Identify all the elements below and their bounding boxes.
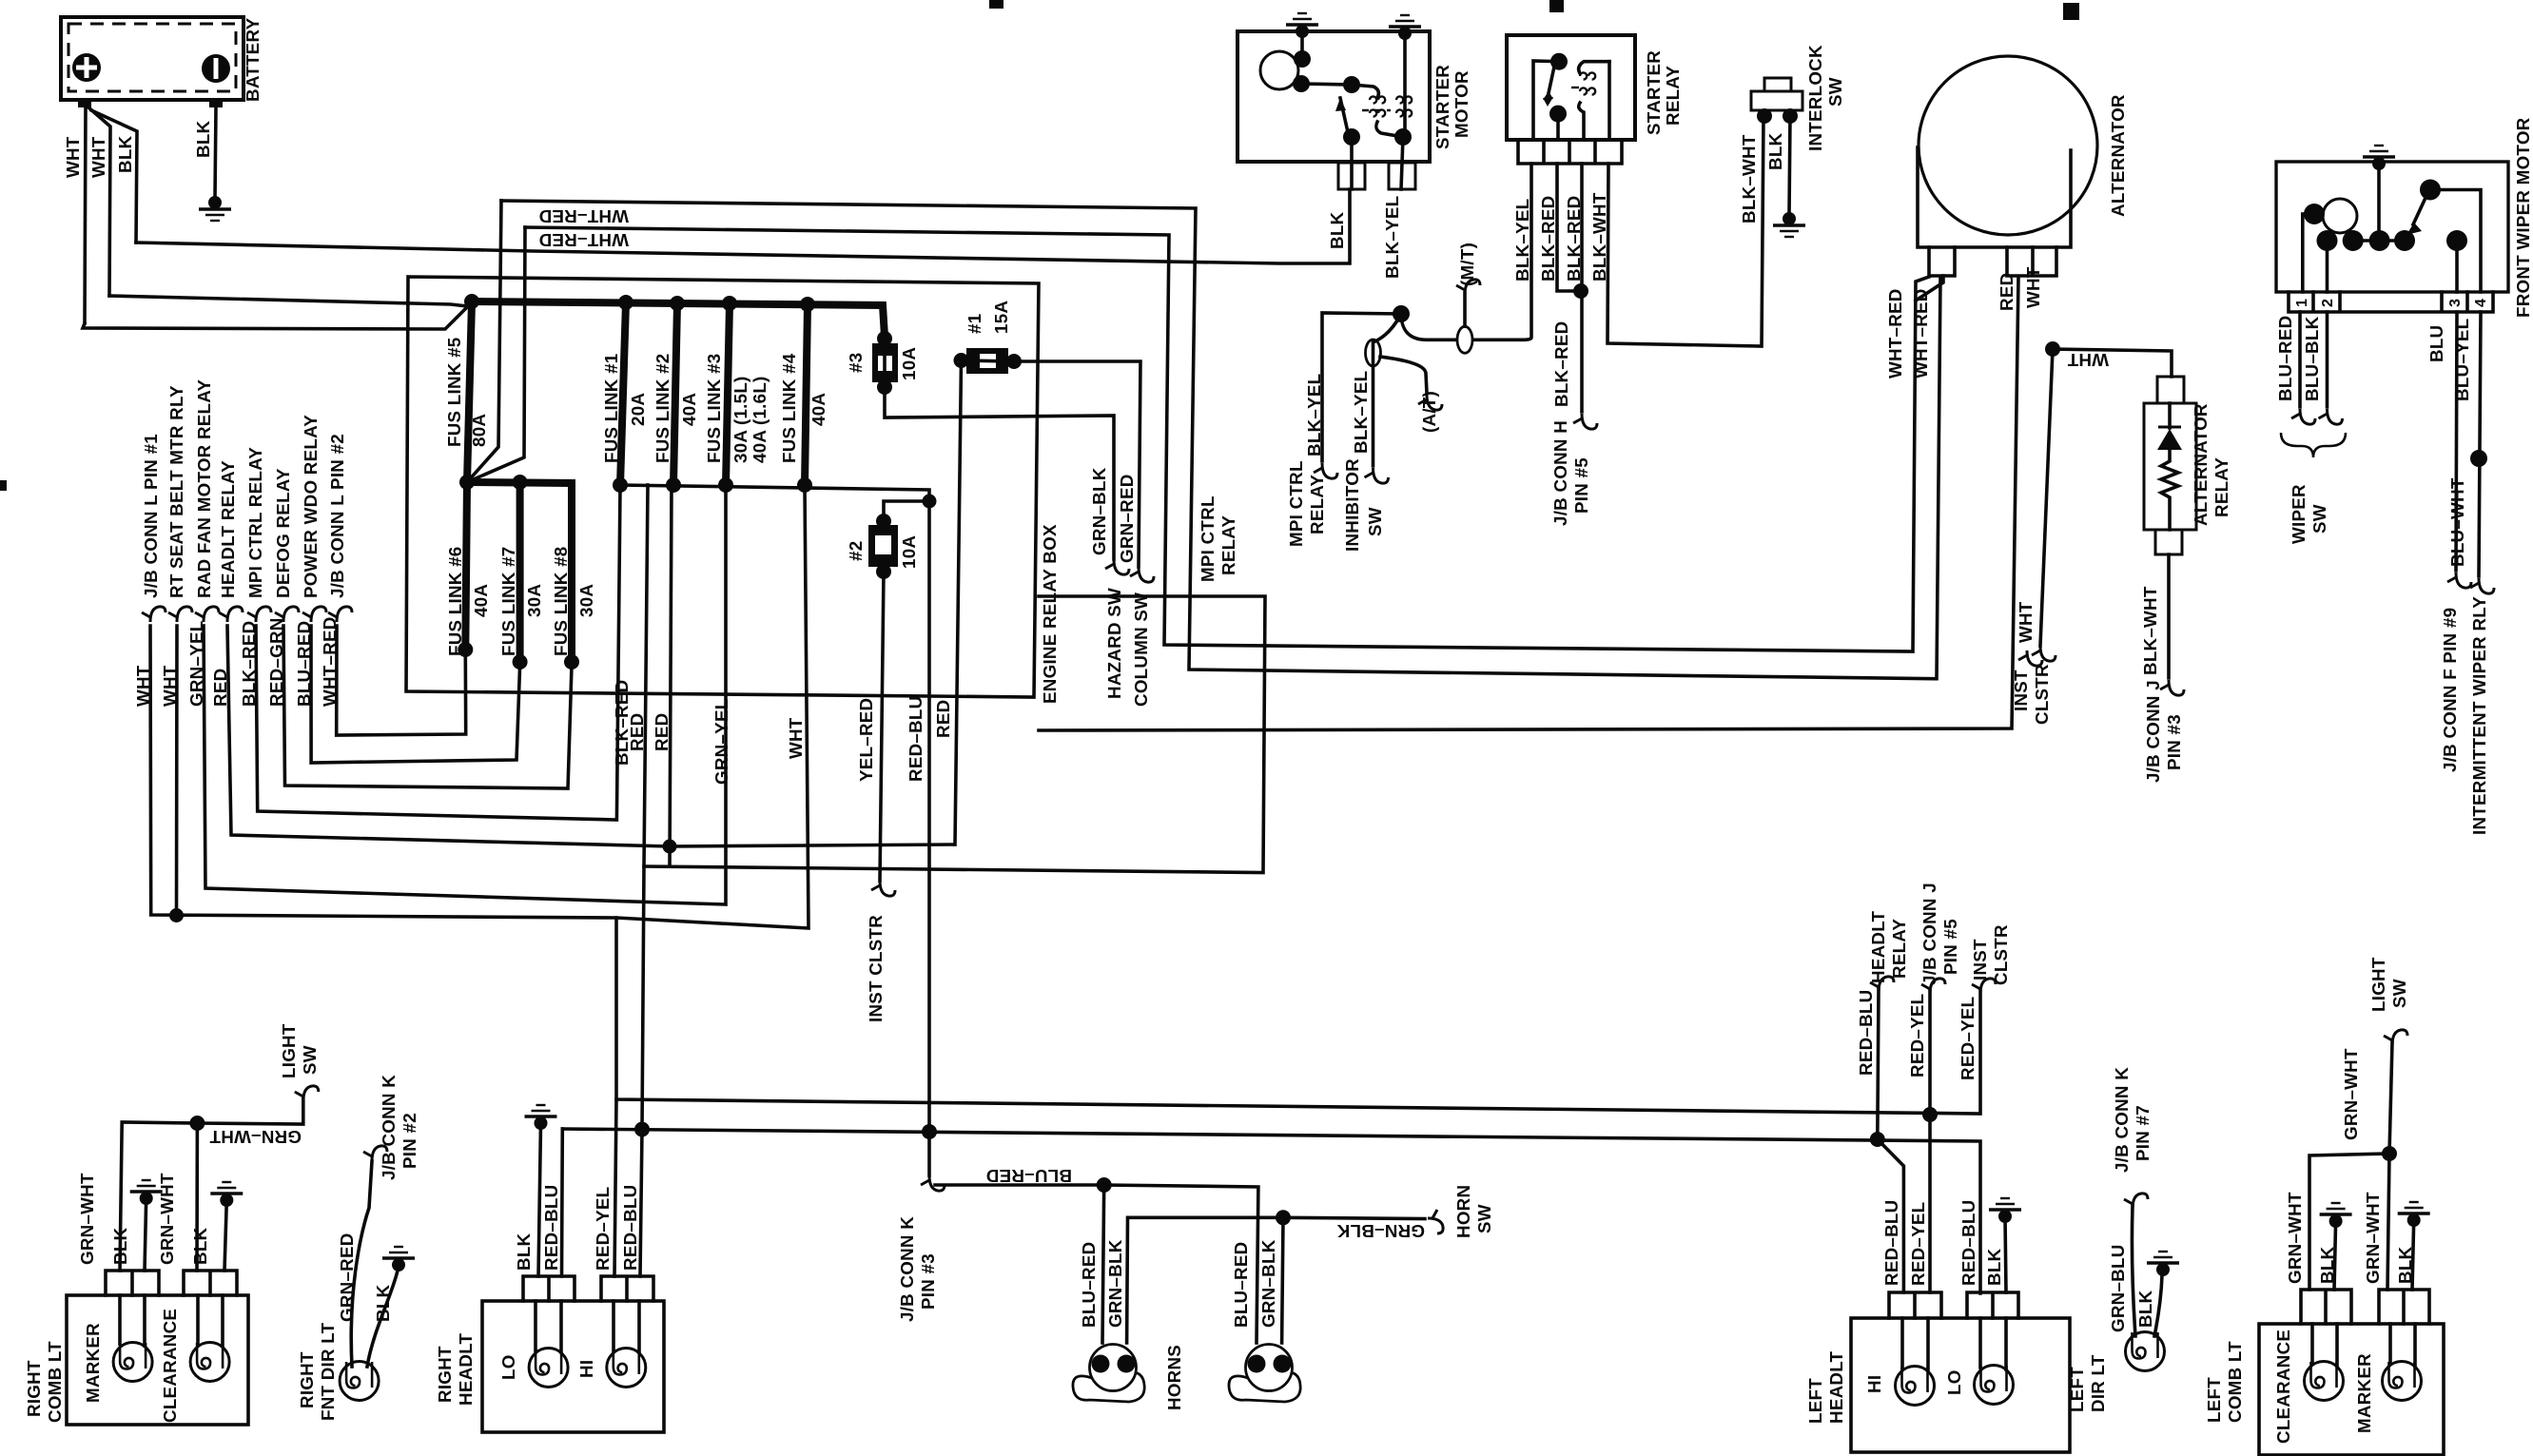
svg-text:40A: 40A: [809, 393, 828, 426]
svg-text:GRN–BLK: GRN–BLK: [1336, 1221, 1425, 1241]
svg-text:J/B CONN J: J/B CONN J: [2143, 680, 2163, 783]
svg-text:BLK: BLK: [373, 1284, 393, 1322]
svg-text:BLK: BLK: [1765, 132, 1785, 170]
svg-text:LO: LO: [1944, 1369, 1964, 1395]
svg-text:#3: #3: [846, 353, 866, 373]
svg-text:DEFOG RELAY: DEFOG RELAY: [273, 468, 293, 598]
svg-text:ALTERNATOR: ALTERNATOR: [2108, 94, 2128, 217]
svg-text:30A: 30A: [524, 584, 544, 617]
svg-text:WHT–RED: WHT–RED: [1885, 288, 1905, 379]
svg-text:J/B CONN K: J/B CONN K: [2112, 1067, 2132, 1173]
svg-text:RED–BLU: RED–BLU: [1881, 1200, 1901, 1286]
svg-text:FUS LINK #5: FUS LINK #5: [444, 338, 464, 447]
svg-text:GRN–WHT: GRN–WHT: [2341, 1048, 2361, 1140]
svg-text:J/B CONN F PIN #9: J/B CONN F PIN #9: [2440, 608, 2460, 772]
svg-text:BLK: BLK: [2395, 1246, 2415, 1284]
svg-text:RELAY: RELAY: [2212, 457, 2231, 517]
svg-text:FRONT WIPER MOTOR: FRONT WIPER MOTOR: [2513, 117, 2533, 318]
svg-text:HAZARD SW: HAZARD SW: [1104, 588, 1124, 699]
svg-text:FUS LINK #2: FUS LINK #2: [653, 354, 672, 463]
svg-text:INST CLSTR: INST CLSTR: [866, 915, 886, 1022]
svg-text:HI: HI: [576, 1360, 596, 1378]
svg-text:BLK–RED: BLK–RED: [1551, 321, 1571, 407]
svg-text:WHT: WHT: [786, 717, 806, 759]
svg-text:RED: RED: [933, 700, 953, 738]
svg-text:SW: SW: [2309, 504, 2329, 534]
svg-text:RELAY: RELAY: [1889, 919, 1909, 979]
svg-text:BLU–YEL: BLU–YEL: [2452, 319, 2472, 401]
svg-text:LIGHT: LIGHT: [2368, 957, 2388, 1012]
svg-text:PIN #7: PIN #7: [2133, 1105, 2153, 1161]
svg-text:LIGHT: LIGHT: [279, 1023, 299, 1078]
svg-text:#1: #1: [964, 314, 984, 334]
svg-text:ENGINE RELAY BOX: ENGINE RELAY BOX: [1040, 524, 1060, 704]
svg-text:BLU: BLU: [2426, 325, 2446, 362]
svg-text:20A: 20A: [628, 393, 648, 426]
svg-text:FUS LINK #4: FUS LINK #4: [779, 353, 799, 463]
svg-text:#2: #2: [846, 541, 866, 561]
svg-text:BLU–RED: BLU–RED: [1231, 1242, 1251, 1328]
svg-text:BLK: BLK: [1327, 211, 1347, 249]
svg-text:WIPER: WIPER: [2289, 484, 2309, 544]
svg-text:GRN–YEL: GRN–YEL: [711, 699, 731, 785]
svg-text:40A: 40A: [471, 584, 491, 617]
svg-text:FNT DIR LT: FNT DIR LT: [318, 1322, 338, 1421]
svg-text:15A: 15A: [991, 301, 1011, 334]
svg-text:SW: SW: [1365, 507, 1385, 536]
svg-text:COLUMN SW: COLUMN SW: [1131, 592, 1151, 707]
svg-text:INST: INST: [2011, 670, 2031, 711]
svg-text:GRN–BLK: GRN–BLK: [1089, 467, 1109, 555]
svg-text:RIGHT: RIGHT: [297, 1351, 317, 1408]
svg-text:MPI CTRL: MPI CTRL: [1198, 495, 1218, 582]
svg-text:BLU–RED: BLU–RED: [986, 1166, 1072, 1186]
svg-text:(M/T): (M/T): [1457, 243, 1477, 286]
svg-text:GRN–WHT: GRN–WHT: [77, 1173, 97, 1265]
svg-text:HORNS: HORNS: [1164, 1345, 1184, 1410]
svg-text:BLU–BLK: BLU–BLK: [2302, 316, 2322, 401]
svg-text:40A (1.6L): 40A (1.6L): [750, 376, 770, 463]
svg-text:DIR LT: DIR LT: [2088, 1354, 2108, 1412]
svg-text:SW: SW: [1825, 77, 1845, 107]
svg-text:COMB LT: COMB LT: [45, 1341, 65, 1423]
svg-text:ALTERNATOR: ALTERNATOR: [2191, 403, 2211, 526]
svg-text:CLSTR: CLSTR: [2032, 664, 2052, 725]
svg-text:LEFT: LEFT: [2204, 1377, 2224, 1423]
svg-text:RT SEAT BELT MTR RLY: RT SEAT BELT MTR RLY: [166, 385, 186, 598]
svg-text:GRN–RED: GRN–RED: [337, 1233, 357, 1322]
svg-text:BLK–RED: BLK–RED: [1538, 196, 1558, 281]
svg-text:FUS LINK #6: FUS LINK #6: [445, 547, 465, 656]
svg-text:INHIBITOR: INHIBITOR: [1342, 458, 1362, 552]
svg-text:30A (1.5L): 30A (1.5L): [731, 376, 750, 463]
svg-text:COMB LT: COMB LT: [2225, 1341, 2245, 1423]
svg-text:WHT: WHT: [2016, 601, 2036, 643]
svg-text:MARKER: MARKER: [2354, 1353, 2374, 1433]
svg-text:BLK: BLK: [514, 1233, 534, 1271]
svg-text:BLU–RED: BLU–RED: [2275, 316, 2295, 401]
svg-text:RIGHT: RIGHT: [24, 1360, 44, 1417]
svg-text:RED: RED: [1997, 273, 2017, 311]
svg-text:GRN–WHT: GRN–WHT: [2285, 1192, 2305, 1284]
svg-text:RED–YEL: RED–YEL: [1908, 1202, 1928, 1286]
svg-text:GRN–WHT: GRN–WHT: [157, 1173, 177, 1265]
svg-text:BLK: BLK: [190, 1227, 210, 1265]
svg-text:BLK–YEL: BLK–YEL: [1382, 196, 1402, 279]
svg-text:YEL–RED: YEL–RED: [856, 698, 876, 782]
svg-text:WHT: WHT: [2067, 350, 2109, 370]
svg-text:GRN–BLU: GRN–BLU: [2108, 1244, 2128, 1332]
svg-text:2: 2: [2320, 299, 2336, 307]
svg-text:HEADLT: HEADLT: [1868, 910, 1888, 983]
svg-text:J/B CONN J: J/B CONN J: [1919, 883, 1939, 985]
svg-text:LEFT: LEFT: [2067, 1367, 2087, 1412]
svg-text:SW: SW: [1474, 1204, 1494, 1233]
svg-text:BLK–WHT: BLK–WHT: [2140, 586, 2160, 675]
svg-text:GRN–RED: GRN–RED: [1117, 474, 1137, 563]
svg-text:RED–BLU: RED–BLU: [1856, 990, 1876, 1076]
svg-text:HEADLT: HEADLT: [1826, 1350, 1846, 1424]
svg-text:GRN–WHT: GRN–WHT: [209, 1127, 302, 1147]
svg-text:MARKER: MARKER: [83, 1323, 103, 1403]
svg-text:PIN #3: PIN #3: [2164, 714, 2184, 770]
svg-text:BLK: BLK: [2135, 1290, 2155, 1328]
svg-text:HI: HI: [1864, 1375, 1884, 1393]
svg-text:INTERMITTENT WIPER RLY: INTERMITTENT WIPER RLY: [2469, 596, 2489, 835]
svg-text:1: 1: [2294, 299, 2310, 307]
svg-text:4: 4: [2473, 299, 2489, 307]
svg-text:J/B CONN K: J/B CONN K: [897, 1216, 917, 1322]
svg-text:GRN–BLK: GRN–BLK: [1105, 1239, 1125, 1328]
svg-text:FUS LINK #1: FUS LINK #1: [601, 354, 621, 463]
svg-text:BLK–RED: BLK–RED: [1564, 196, 1584, 281]
svg-text:BLU–WHT: BLU–WHT: [2447, 477, 2467, 567]
svg-text:80A: 80A: [469, 414, 489, 447]
svg-text:BLK–WHT: BLK–WHT: [1739, 134, 1759, 223]
svg-text:STARTER: STARTER: [1432, 65, 1452, 149]
svg-text:BLK: BLK: [2317, 1246, 2337, 1284]
svg-text:CLSTR: CLSTR: [1991, 924, 2011, 985]
svg-text:PIN #2: PIN #2: [399, 1113, 419, 1169]
svg-text:10A: 10A: [899, 347, 919, 380]
svg-text:MOTOR: MOTOR: [1452, 70, 1471, 138]
svg-text:BLK–YEL: BLK–YEL: [1304, 374, 1324, 456]
svg-text:PIN #5: PIN #5: [1571, 457, 1591, 514]
svg-text:SW: SW: [300, 1045, 320, 1075]
svg-text:(A/T): (A/T): [1419, 391, 1439, 433]
svg-text:WHT–RED: WHT–RED: [538, 230, 629, 250]
svg-text:RED–BLU: RED–BLU: [541, 1185, 561, 1271]
svg-text:HEADLT RELAY: HEADLT RELAY: [218, 460, 238, 598]
svg-text:WHT: WHT: [63, 136, 83, 178]
svg-text:BLK: BLK: [193, 120, 213, 158]
svg-text:HEADLT: HEADLT: [456, 1332, 476, 1406]
svg-text:RELAY: RELAY: [1663, 66, 1683, 126]
svg-text:INTERLOCK: INTERLOCK: [1805, 45, 1825, 151]
svg-text:BLK–YEL: BLK–YEL: [1351, 371, 1371, 454]
svg-text:WHT–RED: WHT–RED: [1911, 288, 1931, 379]
svg-text:LEFT: LEFT: [1805, 1378, 1825, 1424]
svg-text:FUS LINK #7: FUS LINK #7: [498, 547, 518, 656]
svg-text:30A: 30A: [576, 584, 596, 617]
svg-text:POWER WDO RELAY: POWER WDO RELAY: [301, 415, 321, 598]
svg-text:J/B CONN K: J/B CONN K: [379, 1075, 399, 1180]
svg-text:RELAY: RELAY: [1218, 515, 1238, 575]
svg-text:RED–BLU: RED–BLU: [620, 1185, 640, 1271]
svg-text:WHT: WHT: [88, 136, 108, 178]
svg-text:J/B CONN L PIN #1: J/B CONN L PIN #1: [141, 434, 161, 598]
svg-text:GRN–WHT: GRN–WHT: [2363, 1192, 2383, 1284]
svg-text:CLEARANCE: CLEARANCE: [2273, 1330, 2293, 1444]
svg-text:J/B CONN L PIN #2: J/B CONN L PIN #2: [327, 434, 347, 598]
svg-text:40A: 40A: [679, 393, 699, 426]
svg-text:MPI CTRL: MPI CTRL: [1286, 460, 1306, 547]
svg-text:PIN #5: PIN #5: [1940, 919, 1960, 975]
svg-text:PIN #3: PIN #3: [918, 1253, 938, 1310]
svg-text:BLK–RED: BLK–RED: [612, 680, 632, 766]
svg-text:BLK–WHT: BLK–WHT: [1589, 192, 1609, 281]
svg-text:FUS LINK #3: FUS LINK #3: [704, 354, 724, 463]
svg-text:BLK–YEL: BLK–YEL: [1512, 199, 1532, 281]
svg-text:MPI CTRL RELAY: MPI CTRL RELAY: [245, 447, 265, 598]
svg-text:FUS LINK #8: FUS LINK #8: [551, 547, 571, 656]
svg-text:INST: INST: [1970, 939, 1990, 980]
svg-text:WHT: WHT: [2023, 266, 2043, 308]
svg-text:RED: RED: [652, 713, 672, 751]
svg-text:CLEARANCE: CLEARANCE: [160, 1309, 180, 1423]
svg-text:BLK: BLK: [110, 1227, 130, 1265]
svg-text:3: 3: [2447, 299, 2464, 307]
svg-text:J/B CONN H: J/B CONN H: [1550, 420, 1570, 526]
svg-text:RED–YEL: RED–YEL: [593, 1187, 613, 1271]
svg-text:BLU–RED: BLU–RED: [1079, 1242, 1099, 1328]
svg-text:BLK: BLK: [115, 135, 135, 173]
svg-text:LO: LO: [498, 1354, 518, 1380]
svg-text:10A: 10A: [899, 535, 919, 569]
svg-text:RELAY: RELAY: [1307, 475, 1327, 534]
svg-text:RED–BLU: RED–BLU: [906, 696, 926, 782]
svg-text:GRN–BLK: GRN–BLK: [1258, 1239, 1278, 1328]
svg-text:RED–BLU: RED–BLU: [1958, 1200, 1978, 1286]
svg-text:BLK: BLK: [1984, 1248, 2004, 1286]
svg-text:WHT–RED: WHT–RED: [538, 206, 629, 226]
svg-text:SW: SW: [2389, 979, 2409, 1008]
svg-text:RED–YEL: RED–YEL: [1958, 997, 1978, 1080]
svg-text:RIGHT: RIGHT: [435, 1346, 455, 1403]
svg-text:STARTER: STARTER: [1644, 50, 1664, 135]
svg-text:HORN: HORN: [1453, 1185, 1473, 1238]
svg-text:BATTERY: BATTERY: [243, 17, 263, 102]
svg-text:RAD FAN MOTOR RELAY: RAD FAN MOTOR RELAY: [194, 379, 214, 598]
svg-text:RED–YEL: RED–YEL: [1907, 994, 1927, 1077]
